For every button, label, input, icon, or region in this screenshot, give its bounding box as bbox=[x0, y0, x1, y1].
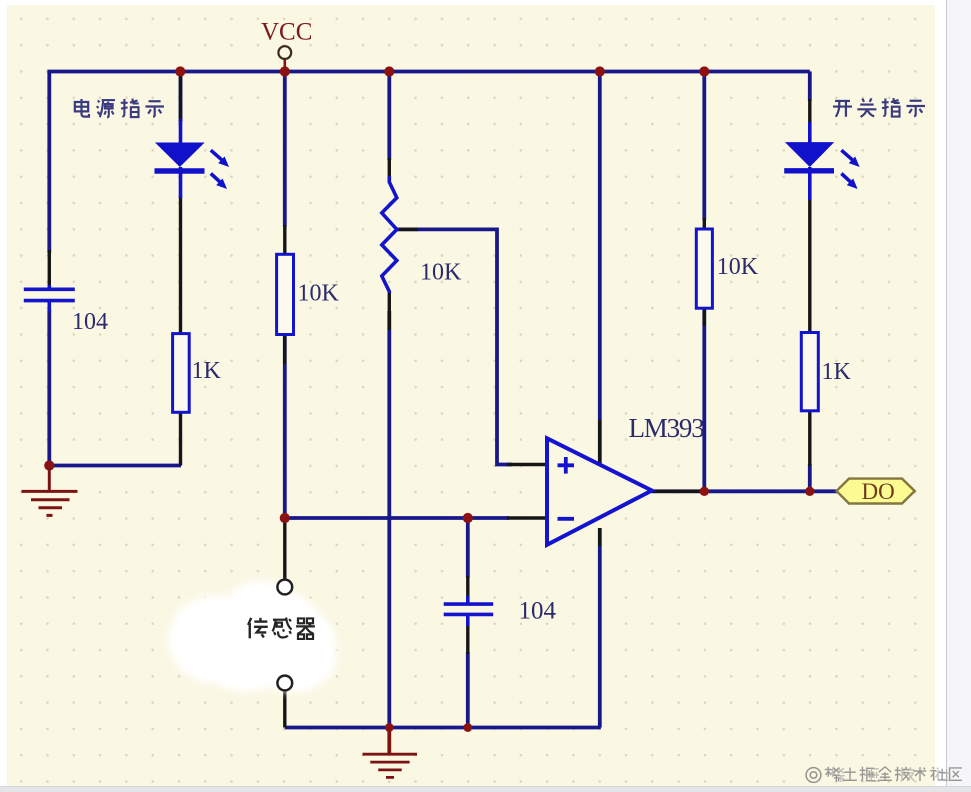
svg-text:VCC: VCC bbox=[261, 19, 312, 46]
svg-text:1K: 1K bbox=[192, 358, 222, 384]
svg-text:10K: 10K bbox=[420, 260, 462, 286]
svg-text:10K: 10K bbox=[298, 281, 340, 307]
svg-text:LM393: LM393 bbox=[629, 413, 705, 443]
svg-text:104: 104 bbox=[72, 309, 108, 335]
svg-text:1K: 1K bbox=[822, 359, 852, 385]
svg-text:DO: DO bbox=[862, 479, 895, 504]
svg-text:104: 104 bbox=[519, 598, 557, 625]
svg-text:10K: 10K bbox=[717, 254, 759, 280]
